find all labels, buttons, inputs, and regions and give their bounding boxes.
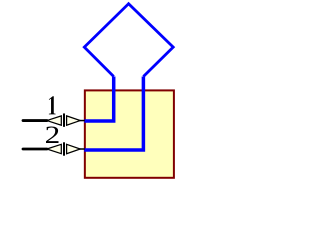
component body box U1	[85, 90, 174, 177]
wire horizontal pin1	[84, 77, 114, 122]
pin 1	[23, 113, 85, 126]
pin 2 right arrow	[67, 144, 81, 153]
pin 1 clock bar	[63, 113, 65, 126]
wire diagonal diamond	[84, 4, 173, 77]
pin 1 stub to box	[80, 120, 85, 122]
wire net: pin1 to diamond loop to pin2	[84, 4, 173, 150]
pin 2 clock bar	[63, 142, 65, 155]
wire horizontal pin2	[84, 77, 143, 151]
pin 1 left arrow	[47, 116, 62, 125]
pin 1 label "1"	[49, 96, 56, 114]
pin 2 label "2"	[46, 127, 58, 143]
pin 1 right arrow	[67, 116, 81, 125]
pin 2 lead	[23, 148, 47, 151]
pin 2	[23, 142, 85, 155]
pin 1 lead	[23, 119, 47, 122]
pin 2 left arrow	[47, 144, 62, 153]
pin 2 stub to box	[80, 148, 85, 150]
